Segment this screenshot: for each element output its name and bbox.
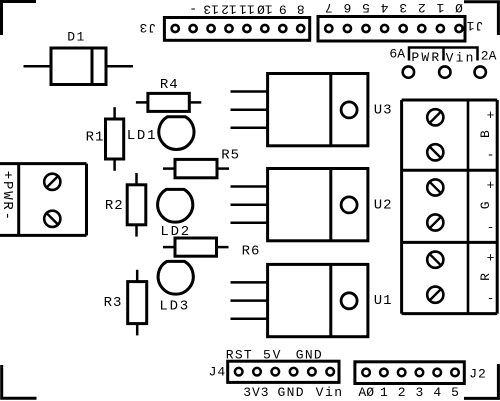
svg-text:J4: J4 (209, 364, 227, 379)
svg-text:J1: J1 (466, 18, 484, 33)
svg-text:U3: U3 (374, 102, 393, 118)
svg-text:RST: RST (226, 347, 253, 362)
svg-text:2A: 2A (481, 49, 497, 64)
svg-text:-: - (487, 220, 495, 235)
svg-text:R: R (478, 273, 493, 281)
svg-text:1Ø: 1Ø (257, 2, 273, 17)
svg-text:J2: J2 (469, 367, 487, 382)
svg-text:GND: GND (278, 385, 305, 400)
svg-text:5: 5 (451, 385, 459, 400)
svg-text:+: + (487, 250, 495, 265)
svg-text:2: 2 (398, 385, 406, 400)
svg-text:4: 4 (381, 0, 389, 15)
svg-text:U1: U1 (374, 293, 393, 309)
svg-text:R3: R3 (104, 295, 123, 311)
svg-text:J3: J3 (138, 20, 156, 35)
svg-text:2: 2 (418, 0, 426, 15)
svg-text:PWR: PWR (411, 50, 441, 65)
svg-text:9: 9 (279, 2, 287, 17)
svg-text:3: 3 (399, 0, 407, 15)
svg-text:Vin: Vin (316, 385, 344, 400)
svg-text:13: 13 (203, 2, 219, 17)
svg-text:4: 4 (433, 385, 441, 400)
svg-text:G: G (478, 201, 493, 209)
svg-text:Vin: Vin (446, 51, 476, 66)
svg-text:3: 3 (416, 385, 424, 400)
svg-text:1: 1 (380, 385, 388, 400)
svg-text:AØ: AØ (358, 385, 374, 400)
svg-text:B: B (478, 130, 493, 138)
svg-text:R4: R4 (160, 77, 179, 93)
svg-text:U2: U2 (374, 197, 393, 213)
svg-text:R2: R2 (105, 198, 124, 214)
svg-text:GND: GND (296, 347, 323, 362)
svg-text:R1: R1 (86, 129, 105, 145)
svg-text:1: 1 (436, 0, 444, 15)
svg-text:-: - (487, 148, 495, 163)
svg-text:D1: D1 (67, 30, 86, 45)
svg-text:R5: R5 (221, 148, 240, 164)
svg-text:12: 12 (221, 2, 237, 17)
svg-text:5V: 5V (263, 347, 282, 362)
svg-text:-: - (189, 2, 197, 17)
svg-text:LD1: LD1 (127, 128, 158, 144)
svg-text:Ø: Ø (455, 0, 463, 15)
svg-text:8: 8 (297, 2, 305, 17)
svg-text:+PWR-: +PWR- (0, 171, 15, 222)
svg-text:-: - (487, 291, 495, 306)
svg-text:5: 5 (362, 0, 370, 15)
svg-text:LD3: LD3 (159, 299, 190, 315)
svg-text:11: 11 (239, 2, 255, 17)
svg-text:R6: R6 (242, 244, 261, 260)
svg-text:3V3: 3V3 (243, 385, 269, 400)
svg-text:LD2: LD2 (160, 224, 191, 240)
svg-text:6A: 6A (389, 47, 405, 62)
svg-text:+: + (487, 178, 495, 193)
svg-text:+: + (487, 108, 495, 123)
svg-text:7: 7 (325, 0, 333, 15)
svg-text:6: 6 (343, 0, 351, 15)
